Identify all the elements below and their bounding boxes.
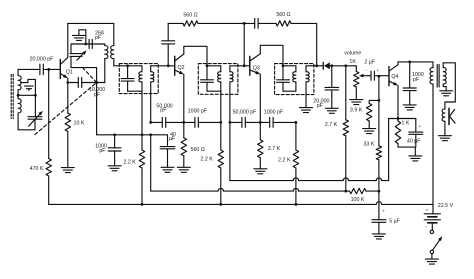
wire: T1 bottom inner bbox=[128, 90, 142, 92]
ground (AVC bypass cap) bbox=[108, 165, 121, 167]
svg-text:+: + bbox=[382, 208, 385, 213]
node: detector input junction bbox=[315, 64, 318, 67]
wire: T1 primary return to AVC line bbox=[141, 91, 143, 135]
potentiometer 1 K volume control bbox=[355, 66, 357, 72]
T2 tuning capacitor bbox=[206, 66, 208, 80]
wire: oscillator loop top rail bbox=[68, 22, 114, 24]
wire: Q3 base bias drop bbox=[243, 23, 245, 65]
node: AVC takeoff junction bbox=[344, 64, 347, 67]
ground (earphone) bbox=[438, 135, 451, 137]
dashed gang line (tuning gang) bbox=[35, 83, 97, 135]
IF transformer T2 shield (dashed box) bbox=[198, 64, 238, 95]
T2 primary winding bbox=[220, 66, 222, 72]
ground (Q3 emitter resistor) bbox=[254, 168, 267, 170]
output transformer T4 core bbox=[436, 65, 438, 88]
svg-text:40 µF: 40 µF bbox=[407, 139, 421, 145]
wire: oscillator to T1 bbox=[114, 65, 128, 67]
trimmer capacitor across antenna coil upper winding bbox=[21, 79, 36, 95]
wire: Q4 collector up bbox=[397, 62, 399, 65]
node: T3 primary top junction bbox=[282, 64, 285, 67]
resistor 470 K (Q1 base bias) bbox=[48, 69, 50, 158]
wire: Q2 collector loop bbox=[184, 46, 207, 66]
wire: T2 bottom inner bbox=[207, 90, 221, 92]
oscillator coil left winding bbox=[105, 46, 108, 59]
wire: Q4 base bias line upper bbox=[378, 76, 380, 100]
node: 100 K left junction bbox=[344, 190, 347, 193]
wire: emitter network top bbox=[389, 118, 416, 120]
capacitor 20,000 pF (antenna coupling) bbox=[39, 64, 41, 75]
resistor 2.7 K (Q3 emitter) bbox=[259, 122, 261, 139]
ground (5 uF) bbox=[372, 233, 385, 235]
svg-text:560 Ω: 560 Ω bbox=[276, 12, 290, 18]
antenna coil L1 ferrite core (dashed) bbox=[10, 75, 12, 119]
node: antenna coil tap junction bbox=[17, 94, 20, 97]
ground (T4 secondary) bbox=[440, 90, 453, 92]
resistor 2.2 K (2nd) bbox=[295, 122, 297, 150]
transistor Q2 bbox=[174, 56, 176, 75]
capacitor 50,000 pF (2nd) bbox=[241, 117, 243, 127]
svg-text:Q2: Q2 bbox=[178, 65, 185, 71]
svg-text:2 µF: 2 µF bbox=[364, 60, 375, 66]
earphone coil bbox=[442, 109, 445, 121]
wire: T3 bottom inner bbox=[283, 90, 296, 92]
T1 tuning capacitor bbox=[127, 66, 129, 79]
svg-text:+: + bbox=[377, 68, 380, 73]
capacitor 1000 pF (AVC bypass) bbox=[114, 135, 116, 148]
svg-text:1 K: 1 K bbox=[402, 120, 410, 126]
oscillator coil right winding bbox=[111, 46, 114, 59]
ground (Q2 emitter resistor) bbox=[177, 166, 190, 168]
ground (T3 secondary return) bbox=[300, 107, 313, 109]
arrow of variable capacitor C1 bbox=[29, 114, 40, 126]
ground (output bypass cap) bbox=[403, 104, 416, 106]
resistor 2.2 K (1st) bbox=[220, 122, 222, 150]
wire: negative supply rail bbox=[49, 203, 377, 205]
node: rail junction 2.2K (1st) bbox=[219, 203, 222, 206]
svg-text:pF: pF bbox=[160, 108, 167, 114]
wire: 1st IF coupling line bbox=[151, 121, 163, 123]
output transformer T4 primary bbox=[432, 62, 434, 68]
svg-text:50,000 pF: 50,000 pF bbox=[233, 110, 258, 116]
node: Q4 base junction bbox=[378, 75, 381, 78]
wire: AGC feedback line (T2 return to Q4 emitter) bbox=[229, 122, 231, 180]
svg-text:22.5 V: 22.5 V bbox=[438, 203, 454, 209]
ground (switch) bbox=[425, 258, 438, 260]
capacitor 20,000 pF (detector filter) bbox=[331, 66, 333, 88]
node: oscillator tank / ground junction bbox=[84, 43, 87, 46]
wire: AVC return rail bbox=[150, 135, 152, 191]
node: Q3 emitter junction bbox=[259, 121, 262, 124]
transistor Q3 bbox=[249, 56, 251, 75]
resistor 560 ohm (1st top) bbox=[183, 21, 198, 26]
node: Q4 emitter network junction bbox=[397, 117, 400, 120]
svg-text:+: + bbox=[418, 124, 421, 129]
node: T2 secondary bottom junction bbox=[229, 121, 232, 124]
wire: emitter network bottom bbox=[398, 146, 415, 148]
wire: feedback node down to AVC line bbox=[96, 83, 98, 135]
svg-text:20,000 pF: 20,000 pF bbox=[30, 57, 55, 63]
wire: T2 secondary top to Q3 base bbox=[230, 65, 250, 67]
wire: Q2 emitter down bbox=[183, 74, 185, 122]
capacitor (series, top rail) bbox=[254, 18, 256, 28]
wire: oscillator loop right side bbox=[113, 23, 115, 45]
diode detector CR1 bbox=[322, 62, 324, 69]
capacitor (Q2 base, under 560 ohm rail) bbox=[167, 23, 169, 40]
wire: antenna top lead bbox=[18, 68, 40, 70]
node: rail junction 470K-2.2K bbox=[141, 203, 144, 206]
T3 primary winding bbox=[295, 66, 297, 72]
svg-text:pF: pF bbox=[94, 92, 101, 98]
wire: Q1 collector up to oscillator loop bbox=[67, 23, 69, 57]
node: Q1 emitter junction bbox=[67, 78, 69, 82]
node: AVC/1000pF junction bbox=[113, 133, 116, 136]
resistor 10 K (Q1 emitter) bbox=[67, 83, 69, 114]
svg-text:Q3: Q3 bbox=[253, 66, 260, 72]
svg-text:1000 pF: 1000 pF bbox=[264, 110, 284, 116]
wire: top rail to detector bbox=[291, 23, 317, 65]
wire: feedback line down (V_c) bbox=[388, 119, 390, 181]
node: feedback junction bbox=[95, 81, 98, 84]
ground (3.9 K) bbox=[363, 128, 376, 130]
node: detector filter junction bbox=[330, 64, 333, 67]
wire: bias line to 5 uF bbox=[378, 191, 380, 220]
resistor 2.2 K (T1 return) bbox=[141, 135, 143, 150]
wire: T2 top inner bbox=[207, 65, 221, 67]
node: top rail / Q3 base drop junction bbox=[243, 22, 246, 25]
variable capacitor C2 (oscillator tuning) bbox=[70, 53, 82, 55]
capacitor 10,000 pF (oscillator feedback) bbox=[68, 82, 79, 84]
svg-text:2.2 K: 2.2 K bbox=[200, 156, 213, 162]
svg-text:470 K: 470 K bbox=[30, 166, 44, 172]
svg-text:5 µF: 5 µF bbox=[389, 218, 400, 224]
svg-text:2.7 K: 2.7 K bbox=[325, 122, 338, 128]
IF transformer T1 shield (dashed box) bbox=[119, 64, 158, 94]
svg-text:2.2 K: 2.2 K bbox=[123, 159, 136, 165]
svg-text:volume: volume bbox=[344, 50, 361, 56]
ground (volume control) bbox=[350, 99, 363, 101]
svg-text:-: - bbox=[425, 224, 427, 229]
node: T1 secondary bottom junction bbox=[149, 121, 152, 124]
on-off switch S1 bbox=[430, 230, 433, 233]
arrow of variable capacitor C2 bbox=[77, 54, 84, 61]
T3 tuning capacitor bbox=[282, 66, 284, 80]
capacitor 2 uF (audio coupling) bbox=[370, 75, 372, 77]
resistor 2.7 K (AVC) bbox=[343, 120, 348, 136]
node: Q2 emitter junction bbox=[182, 121, 185, 124]
ground (Q4 emitter network) bbox=[409, 155, 422, 157]
wire: Q4 emitter down bbox=[397, 85, 399, 118]
node: Q1 base / 470K junction bbox=[47, 68, 50, 71]
node: 2.2 K top junction bbox=[219, 121, 222, 124]
node: output bypass junction bbox=[408, 61, 411, 64]
capacitor 1000 pF (2nd interstage) bbox=[269, 117, 271, 127]
capacitor 268 pF (oscillator padder) bbox=[88, 40, 90, 49]
wire: AVC takeoff down bbox=[345, 66, 347, 120]
svg-text:pF: pF bbox=[317, 103, 324, 109]
wire: Q3 collector loop bbox=[260, 45, 283, 66]
wire: coil tap to tuning capacitor bbox=[18, 94, 35, 96]
resistor 3.9 K (Q4 base bias) bbox=[369, 100, 379, 103]
wire: T3 secondary top to detector bbox=[306, 65, 323, 67]
svg-text:pF: pF bbox=[413, 77, 420, 83]
svg-text:+: + bbox=[426, 208, 429, 213]
T1 primary winding bbox=[141, 66, 143, 72]
T2 secondary winding bbox=[229, 66, 231, 72]
earphone diaphragm and horn bbox=[448, 108, 450, 124]
node: Q3 base junction bbox=[243, 64, 246, 67]
wire: top rail segment 2 bbox=[198, 22, 255, 24]
node: T2 primary top junction bbox=[206, 64, 209, 67]
wire: T3 top inner bbox=[283, 65, 296, 67]
wiper arrow of volume control bbox=[364, 75, 370, 77]
svg-text:pF: pF bbox=[95, 35, 102, 41]
svg-text:1000 pF: 1000 pF bbox=[188, 108, 208, 114]
svg-text:2.7 K: 2.7 K bbox=[268, 146, 281, 152]
transistor Q4 bbox=[388, 67, 390, 86]
resistor 1 K (Q4 emitter) bbox=[395, 121, 400, 144]
ground (Q1 emitter 10 K) bbox=[61, 167, 74, 169]
svg-text:100 K: 100 K bbox=[351, 197, 365, 203]
node: AVC/T1 secondary junction bbox=[149, 133, 152, 136]
svg-text:pF: pF bbox=[99, 148, 106, 154]
svg-text:10 K: 10 K bbox=[74, 120, 85, 126]
wire: AVC line bbox=[97, 134, 168, 136]
ground (40 uF AVC filter) bbox=[161, 166, 174, 168]
wire: Q1 base lead bbox=[43, 68, 60, 70]
node: Q2 base junction bbox=[167, 64, 170, 67]
wire: Q3 emitter down bbox=[259, 74, 261, 122]
ground (detector filter cap) bbox=[325, 107, 338, 109]
svg-text:560 Ω: 560 Ω bbox=[191, 147, 205, 153]
T1 secondary winding bbox=[150, 66, 152, 72]
resistor 560 ohm (2nd top) bbox=[258, 22, 276, 24]
svg-text:-: - bbox=[365, 68, 367, 73]
svg-text:3.9 K: 3.9 K bbox=[350, 108, 363, 114]
capacitor 50,000 pF (1st) bbox=[161, 117, 163, 127]
wire: oscillator tank top bbox=[71, 44, 105, 54]
wire: T4 secondary return bbox=[443, 84, 446, 91]
output transformer T4 secondary bbox=[442, 63, 444, 68]
wire: T1 top inner bbox=[128, 65, 142, 67]
capacitor 1000 pF (output bypass) bbox=[409, 62, 411, 88]
antenna coil L1 winding bbox=[17, 69, 19, 75]
svg-text:560 Ω: 560 Ω bbox=[183, 12, 197, 18]
capacitor 5 uF (bias filter) bbox=[372, 219, 386, 221]
svg-text:2.2 K: 2.2 K bbox=[278, 158, 291, 164]
capacitor 40 uF (Q4 emitter bypass) bbox=[415, 119, 417, 133]
IF transformer T3 shield (dashed box) bbox=[275, 64, 314, 95]
wire: top rail segment 1 bbox=[168, 22, 183, 24]
wire: T4 secondary top to earphone bbox=[443, 63, 455, 109]
node: 2.2 K (2nd) top junction bbox=[295, 121, 298, 124]
wire: T1 secondary top to Q2 base bbox=[151, 65, 175, 67]
transistor Q1 bbox=[59, 60, 61, 79]
resistor 100 K (AVC filter) bbox=[346, 190, 350, 192]
node: 100 K right junction bbox=[378, 190, 381, 193]
ground (oscillator tank) bbox=[79, 30, 86, 44]
T3 secondary winding bbox=[305, 66, 307, 72]
svg-text:µF: µF bbox=[169, 136, 176, 142]
wire: 2nd IF coupling line bbox=[230, 121, 242, 123]
node: rail junction 2.2K (2nd) bbox=[295, 203, 298, 206]
svg-text:33 K: 33 K bbox=[363, 141, 374, 147]
wire: antenna circuit bottom bbox=[18, 129, 35, 131]
node: T1 primary top junction bbox=[126, 64, 129, 67]
wire: Q4 collector rail bbox=[398, 61, 433, 63]
node: AVC/T1 primary junction bbox=[141, 133, 144, 136]
wire: T2 primary return bbox=[220, 91, 222, 122]
capacitor 1000 pF (1st interstage) bbox=[194, 117, 196, 127]
battery 22.5 V bbox=[432, 204, 434, 213]
node: 3.9 K junction bbox=[378, 99, 381, 102]
svg-text:1K: 1K bbox=[349, 59, 356, 65]
svg-text:Q1: Q1 bbox=[66, 69, 73, 75]
capacitor 40 uF (AVC filter) bbox=[167, 135, 169, 147]
resistor 560 ohm (Q2 emitter) bbox=[183, 122, 185, 137]
resistor 33 K (Q4 base bias) bbox=[378, 100, 380, 145]
variable capacitor C1 (antenna tuning) bbox=[28, 116, 42, 118]
svg-text:Q4: Q4 bbox=[391, 74, 398, 80]
